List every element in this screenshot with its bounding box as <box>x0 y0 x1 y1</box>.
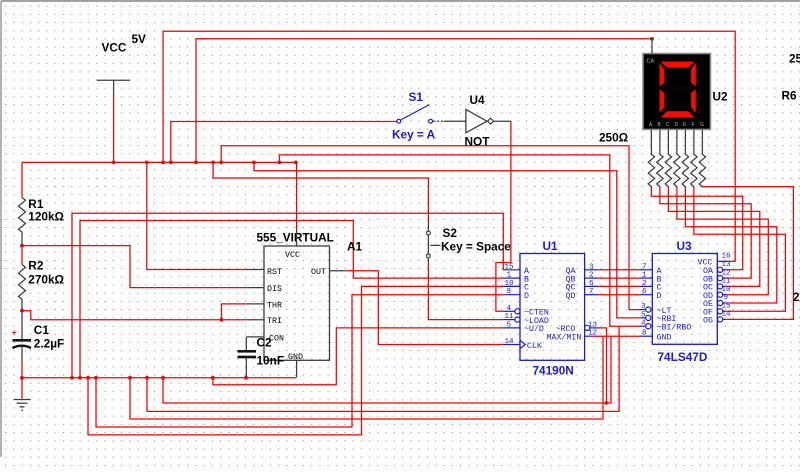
node CA junction dot <box>650 37 653 40</box>
svg-text:14: 14 <box>722 311 732 319</box>
resistor R1 <box>19 197 65 246</box>
svg-text:11: 11 <box>722 278 732 286</box>
555 pin stubs <box>246 230 346 377</box>
page border top <box>1 0 800 2</box>
svg-text:VCC: VCC <box>285 251 300 260</box>
svg-text:6: 6 <box>642 288 647 296</box>
gate U4 NOT <box>444 93 511 149</box>
resistor network 250ohm (7 resistors) <box>599 130 706 187</box>
wire S1 feed (y=121.5) <box>171 122 397 163</box>
svg-text:14: 14 <box>505 338 515 346</box>
wire S2 to U1 LOAD <box>428 265 503 320</box>
svg-text:U4: U4 <box>470 93 486 107</box>
svg-text:5: 5 <box>507 321 512 329</box>
svg-text:C2: C2 <box>257 336 273 350</box>
segment F <box>660 63 665 87</box>
svg-text:Key = A: Key = A <box>392 128 436 142</box>
wire segment B resistor to OB <box>660 187 751 279</box>
wire R1-R2 node to DIS <box>22 246 246 288</box>
wire ground line y=411.4 to U3 BI/RBO drop <box>147 326 619 411</box>
wire RCO drop <box>598 328 607 403</box>
wire segment E resistor to OE <box>685 187 776 304</box>
wire segment A resistor to OA <box>651 187 742 270</box>
segment A <box>661 62 695 68</box>
svg-text:2.2µF: 2.2µF <box>34 337 64 351</box>
wire segment F resistor to OF <box>694 187 786 312</box>
page border left <box>0 1 2 457</box>
svg-text:16: 16 <box>722 252 732 260</box>
svg-text:120kΩ: 120kΩ <box>28 210 64 224</box>
svg-text:G: G <box>700 122 704 128</box>
svg-text:OUT: OUT <box>311 268 326 277</box>
svg-text:GND: GND <box>657 334 672 343</box>
svg-text:8: 8 <box>642 330 647 338</box>
svg-text:12: 12 <box>722 269 732 277</box>
svg-text:CLK: CLK <box>527 342 542 351</box>
U1 pin names <box>524 267 581 351</box>
U1 pin numbers <box>505 263 598 346</box>
svg-text:10: 10 <box>505 280 515 288</box>
svg-text:D: D <box>675 122 679 128</box>
capacitor C1 <box>12 311 65 378</box>
segment E <box>660 89 665 113</box>
svg-text:15: 15 <box>505 263 515 271</box>
wire 555 VCC pin from bus <box>296 162 298 230</box>
svg-text:2: 2 <box>589 272 594 280</box>
wire BI/RBO line (y=154.9) <box>279 155 640 326</box>
wire segment D resistor to OD <box>677 187 768 295</box>
svg-text:11: 11 <box>505 313 515 321</box>
svg-text:5V: 5V <box>132 32 147 46</box>
svg-text:S1: S1 <box>409 90 424 104</box>
U1 pin stubs and bubbles <box>504 270 599 349</box>
svg-text:VCC: VCC <box>102 41 127 55</box>
svg-text:9: 9 <box>507 288 512 296</box>
svg-text:+: + <box>12 328 17 338</box>
svg-text:4: 4 <box>507 305 512 313</box>
svg-text:A1: A1 <box>347 240 363 254</box>
svg-text:3: 3 <box>589 263 594 271</box>
wire 5V top line to U3 VCC (y=31.3, x=735.2) <box>163 31 735 261</box>
wire segment C resistor to OC <box>668 187 759 287</box>
svg-text:MAX/MIN: MAX/MIN <box>547 333 582 343</box>
svg-text:250Ω: 250Ω <box>599 131 628 145</box>
svg-text:12: 12 <box>588 330 598 338</box>
svg-text:74190N: 74190N <box>533 364 574 378</box>
svg-text:~U/D: ~U/D <box>524 324 544 334</box>
U3 pin names <box>657 259 713 343</box>
wire ground line y=403 to U1 RCO and pin12 <box>163 336 611 403</box>
op-amp U3 74LS47D body <box>652 239 717 364</box>
svg-text:D: D <box>657 292 662 301</box>
svg-text:250Ω: 250Ω <box>793 290 800 304</box>
U3 pin numbers <box>641 252 731 337</box>
resistor R2 <box>19 246 65 311</box>
wire R2-C1 node to THR/TRI <box>22 311 246 320</box>
svg-text:DIS: DIS <box>267 285 282 294</box>
op 555 timer U5 body <box>257 231 334 362</box>
wire THR branch <box>222 304 247 320</box>
svg-text:3: 3 <box>641 303 646 311</box>
svg-text:15: 15 <box>722 303 732 311</box>
svg-text:4: 4 <box>641 320 646 328</box>
svg-text:1: 1 <box>507 272 512 280</box>
svg-text:OG: OG <box>703 317 713 326</box>
svg-text:U2: U2 <box>713 90 729 104</box>
svg-text:NOT: NOT <box>465 135 491 149</box>
svg-text:6: 6 <box>589 280 594 288</box>
svg-text:U1: U1 <box>543 239 559 253</box>
svg-text:RST: RST <box>267 268 282 277</box>
svg-text:9: 9 <box>724 294 729 302</box>
display U2 seven segment <box>643 39 728 130</box>
U3 pin stubs and bubbles <box>640 261 730 336</box>
segment B <box>691 63 696 87</box>
svg-text:7: 7 <box>642 263 647 271</box>
segment G unlit <box>662 85 694 90</box>
svg-text:TRI: TRI <box>267 317 282 326</box>
svg-text:270kΩ: 270kΩ <box>28 273 64 287</box>
svg-text:Key = Space: Key = Space <box>441 240 511 254</box>
svg-text:1: 1 <box>642 272 647 280</box>
wire QD to U3 D <box>598 294 640 296</box>
svg-text:13: 13 <box>588 321 598 329</box>
wire segment G resistor to OG <box>702 187 793 320</box>
wire RBI line (y=170.8) <box>254 162 640 318</box>
svg-text:7: 7 <box>589 288 594 296</box>
svg-text:QD: QD <box>566 292 576 301</box>
capacitor C2 <box>238 336 285 378</box>
wire 555 OUT to U1 CLK <box>346 271 504 345</box>
svg-text:F: F <box>692 122 695 128</box>
wire second top line to display CA (y=38.8) <box>196 39 652 163</box>
svg-text:13: 13 <box>722 261 732 269</box>
wire QA to U3 A <box>598 269 640 271</box>
ground <box>14 378 31 410</box>
svg-text:10: 10 <box>722 286 732 294</box>
svg-text:S2: S2 <box>443 226 458 240</box>
svg-text:GND: GND <box>288 353 303 362</box>
wire VCC symbol to bus <box>113 95 115 162</box>
svg-text:U3: U3 <box>677 239 693 253</box>
wire RST from bus via x=146.8 <box>147 162 247 269</box>
op-amp U1 74190N body <box>520 239 585 378</box>
wire ground to U1 C (y=434.9) <box>88 286 504 435</box>
switch S1 <box>392 90 444 142</box>
wire ground bus y=377.8 <box>22 377 297 379</box>
svg-text:555_VIRTUAL: 555_VIRTUAL <box>257 231 334 245</box>
svg-text:THR: THR <box>267 301 282 310</box>
svg-text:10nF: 10nF <box>257 354 285 368</box>
wire QC to U3 C <box>598 285 640 287</box>
svg-text:R6: R6 <box>782 89 798 103</box>
display CA pin wire <box>651 39 653 54</box>
svg-text:5: 5 <box>641 311 646 319</box>
wire U1 pin12 / U3 GND row y=336.2 <box>591 335 640 337</box>
wire R1 top <box>21 162 23 197</box>
svg-text:~BI/RBO: ~BI/RBO <box>657 323 692 333</box>
wire ground to U1 D (y=427) <box>96 295 504 427</box>
wire VCC bus y=162.4 <box>22 161 297 163</box>
wire ground to U1 U/D via y=384.8 <box>213 328 504 385</box>
wire LT line (y=145.8) <box>221 146 640 310</box>
wire QB to U3 B <box>598 277 640 279</box>
power VCC symbol <box>97 32 146 96</box>
wire S2 feed (y=178) <box>213 162 428 222</box>
svg-text:CA: CA <box>647 59 655 65</box>
segment D <box>661 111 695 117</box>
svg-text:C: C <box>666 122 670 128</box>
switch S2 <box>427 223 512 265</box>
svg-text:C1: C1 <box>34 323 50 337</box>
wire ground line y=419 to U3 GND <box>130 336 603 419</box>
svg-text:250Ω: 250Ω <box>789 52 800 66</box>
svg-text:74LS47D: 74LS47D <box>658 350 708 364</box>
wire ground to U1 B (y=220.5) <box>80 221 504 378</box>
svg-text:R2: R2 <box>28 259 44 273</box>
svg-text:2: 2 <box>642 280 647 288</box>
svg-text:D: D <box>524 292 529 301</box>
wire ground to U1 A (y=213.3) <box>72 213 504 377</box>
wire NOT out to U1 CTEN <box>496 121 511 311</box>
segment C <box>691 89 696 113</box>
